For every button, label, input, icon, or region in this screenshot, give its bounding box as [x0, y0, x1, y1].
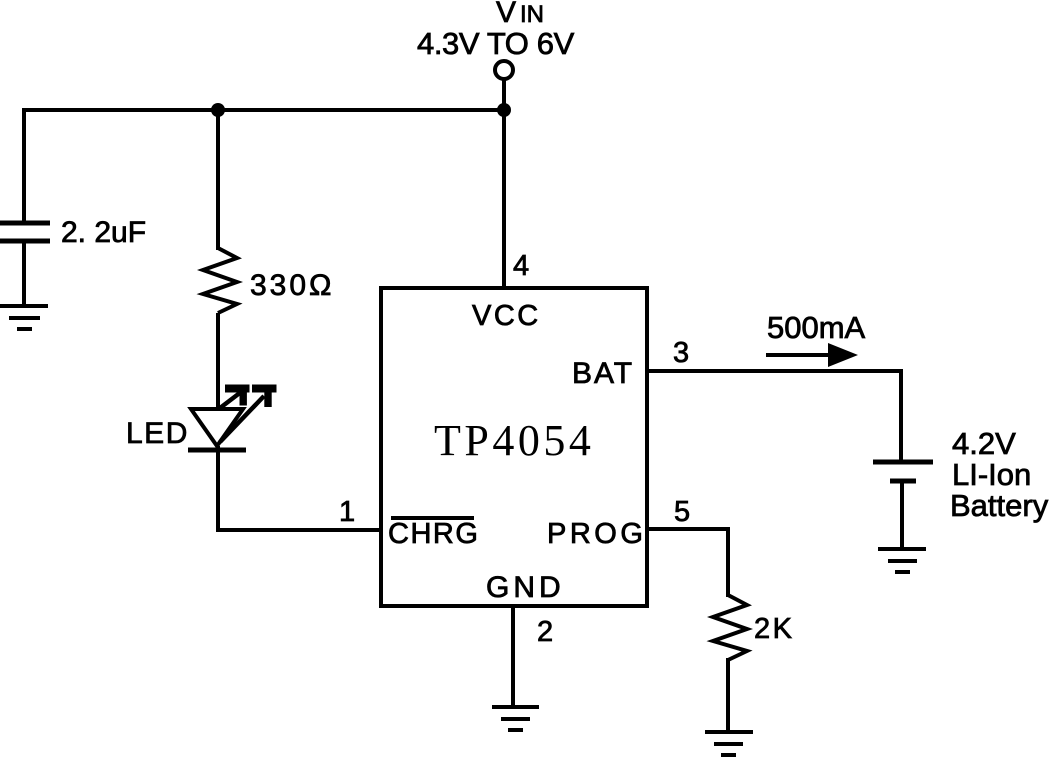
wire capacitor to ground — [22, 243, 26, 306]
wire PROG pin to resistor 2K — [649, 529, 728, 597]
ground (2K resistor) — [705, 732, 753, 755]
svg-text:2. 2uF: 2. 2uF — [61, 216, 146, 249]
svg-text:VCC: VCC — [472, 300, 541, 332]
LED light arrow 1 — [220, 388, 250, 408]
ground (battery) — [878, 549, 926, 572]
svg-text:BAT: BAT — [572, 357, 634, 390]
svg-text:4.2V: 4.2V — [952, 426, 1016, 461]
svg-text:4: 4 — [513, 250, 529, 282]
svg-text:LI-Ion: LI-Ion — [952, 457, 1031, 492]
junction at resistor branch — [211, 103, 225, 117]
wire 2K resistor to ground — [726, 658, 730, 732]
battery BT1 negative plate — [890, 479, 916, 484]
ground (GND pin) — [492, 707, 539, 730]
svg-text:1: 1 — [339, 496, 355, 528]
resistor R1 330 ohm zigzag — [203, 248, 237, 313]
svg-text:330Ω: 330Ω — [250, 269, 334, 302]
svg-text:4.3V TO 6V: 4.3V TO 6V — [417, 26, 575, 61]
svg-text:CHRG: CHRG — [388, 518, 479, 550]
label 4.2V LI-Ion Battery — [950, 426, 1049, 523]
wire left rail down to capacitor — [22, 108, 26, 221]
LED D1 triangle — [191, 409, 243, 446]
svg-text:V: V — [496, 0, 516, 29]
node VIN label — [496, 0, 544, 29]
svg-text:2: 2 — [537, 616, 553, 648]
pin label CHRG with overline — [388, 518, 479, 550]
wire VIN terminal to VCC pin (vertical) — [502, 79, 506, 288]
svg-text:Battery: Battery — [950, 488, 1049, 523]
wire top horizontal rail — [22, 108, 504, 112]
wire junction down to resistor R1 — [216, 110, 220, 250]
wire BAT pin to battery — [649, 371, 901, 461]
ground (capacitor) — [0, 306, 48, 329]
wire resistor to LED — [216, 313, 220, 410]
LED light arrow 2 — [220, 389, 277, 443]
wire battery to ground — [900, 481, 904, 549]
svg-text:IN: IN — [520, 1, 544, 28]
junction at VIN node — [497, 103, 511, 117]
svg-text:PROG: PROG — [547, 518, 646, 550]
resistor R2 2K zigzag — [713, 595, 747, 660]
svg-text:LED: LED — [126, 417, 189, 450]
wire GND pin to ground — [511, 608, 515, 707]
op-amp U1 TP4054 IC body — [381, 288, 647, 606]
svg-text:5: 5 — [674, 496, 690, 528]
LED D1 cathode bar — [188, 448, 246, 453]
battery BT1 positive plate — [873, 460, 933, 465]
svg-text:3: 3 — [673, 337, 689, 369]
current arrow — [766, 343, 858, 367]
svg-text:TP4054: TP4054 — [434, 416, 594, 465]
svg-text:2K: 2K — [754, 613, 794, 645]
svg-text:500mA: 500mA — [767, 310, 866, 345]
VIN input terminal circle — [495, 61, 513, 79]
wire LED to CHRG pin — [218, 446, 379, 530]
svg-text:GND: GND — [486, 571, 565, 604]
capacitor C1 plates — [0, 223, 50, 241]
